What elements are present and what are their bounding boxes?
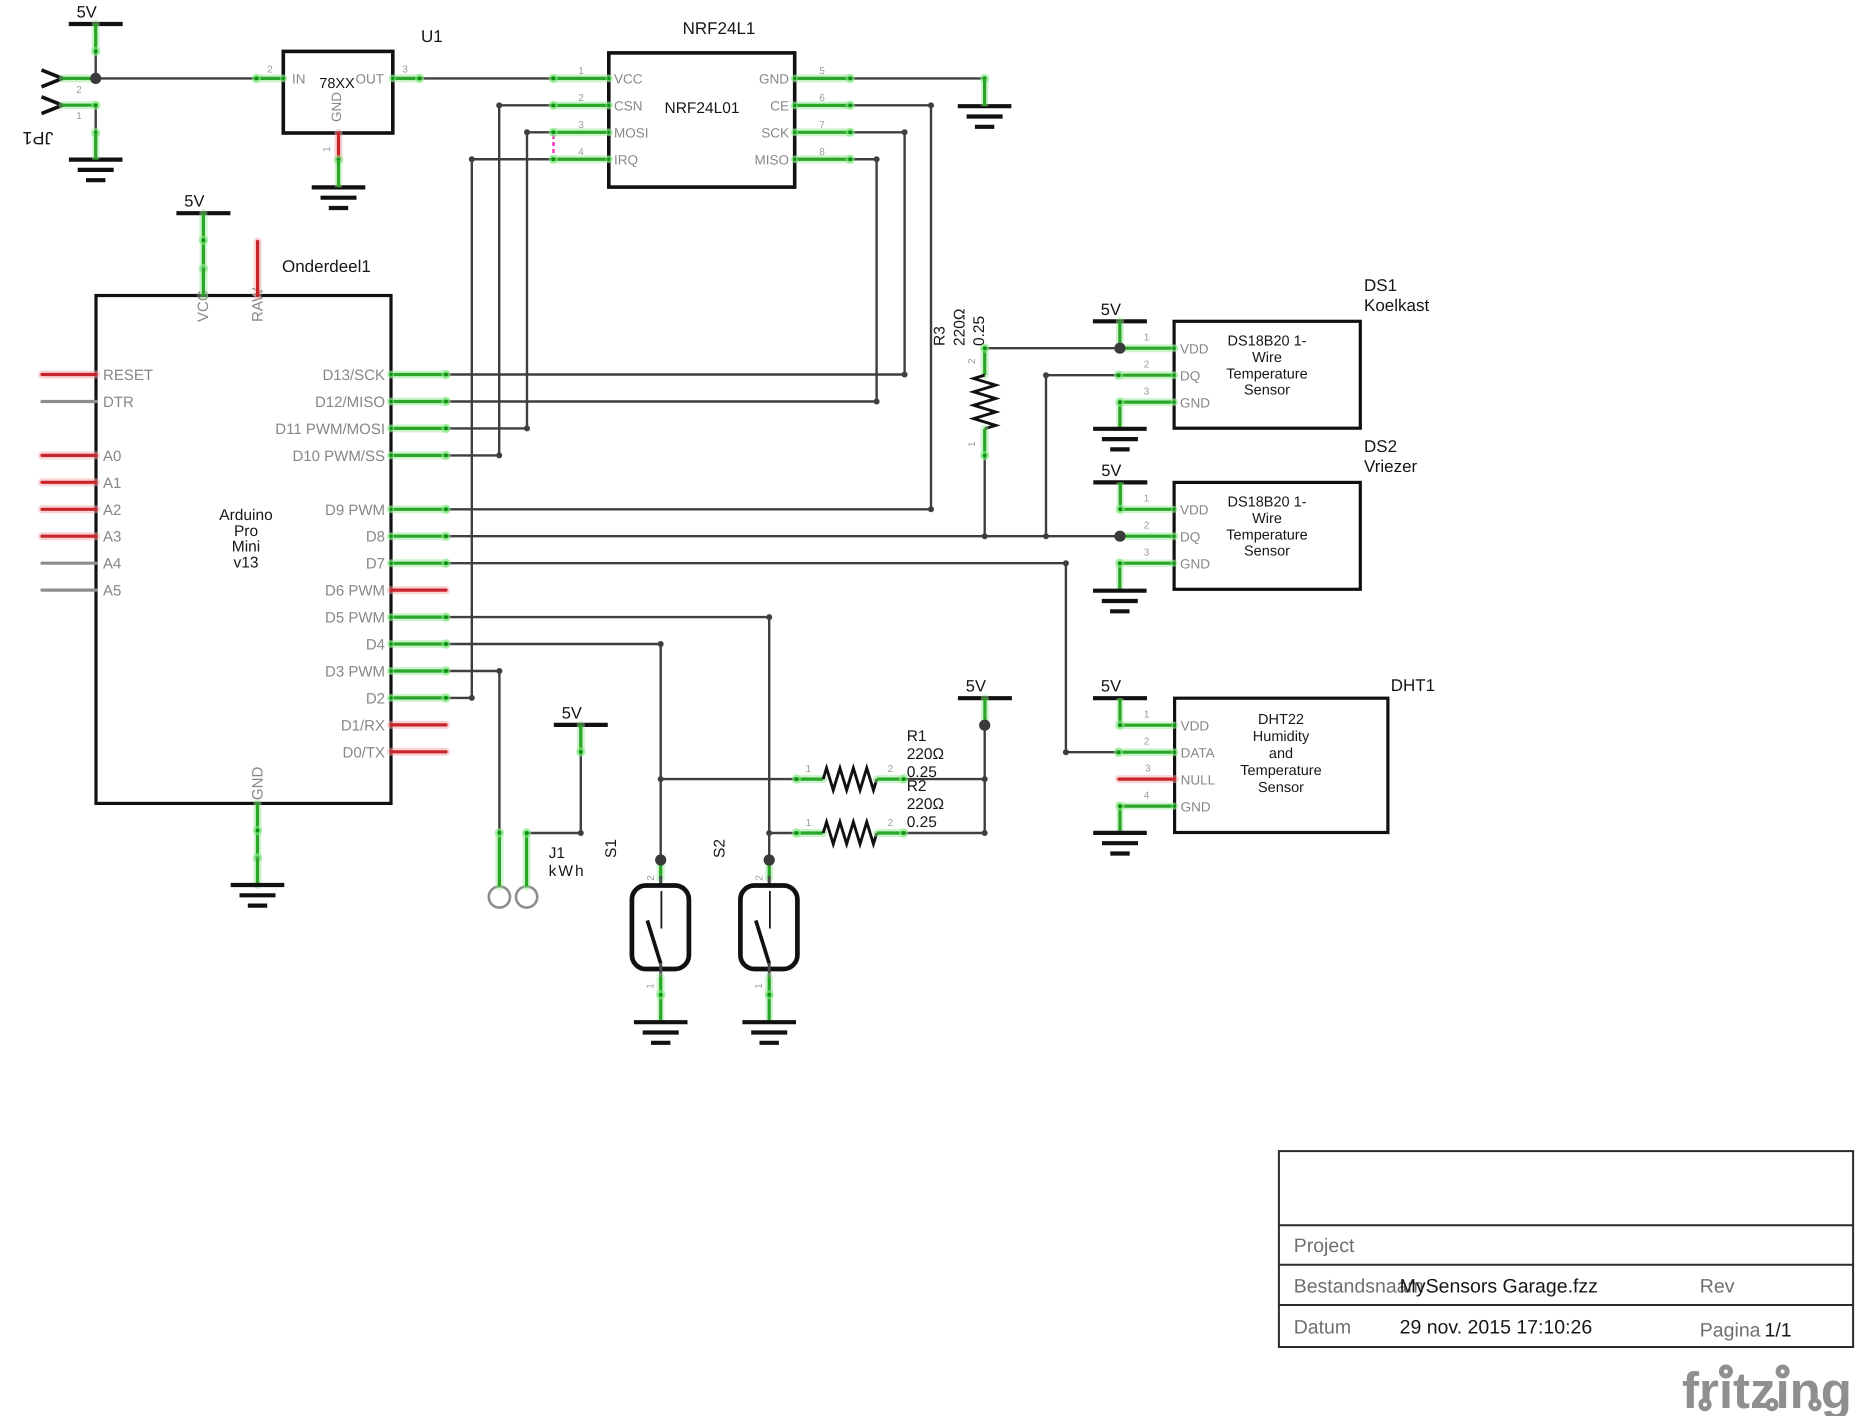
wire Arduino D5 to switch S2 — [441, 612, 772, 860]
5V pin leg — [1116, 321, 1124, 348]
svg-text:CSN: CSN — [614, 98, 643, 113]
svg-text:1: 1 — [76, 111, 82, 122]
ground symbol below S1 — [634, 1022, 688, 1043]
svg-text:D2: D2 — [366, 690, 385, 707]
ground symbol below S2 — [742, 1022, 796, 1043]
svg-text:D8: D8 — [366, 529, 385, 546]
wire S2 pin 1 to ground (green) — [765, 990, 774, 1022]
svg-text:MISO: MISO — [754, 152, 789, 167]
S1 pin 1 leg — [657, 977, 665, 995]
svg-text:1: 1 — [322, 146, 333, 152]
svg-text:DS18B20 1-: DS18B20 1- — [1228, 495, 1307, 511]
S1 pin 2 leg — [657, 860, 665, 879]
switch S2 body — [740, 876, 797, 978]
svg-text:8: 8 — [819, 147, 825, 158]
NRF pin 6 CE leg — [791, 102, 850, 109]
power 5V symbol above DS1 — [1093, 301, 1147, 322]
svg-text:U1: U1 — [421, 27, 443, 46]
R2 pin numbers — [806, 818, 894, 829]
svg-text:DHT1: DHT1 — [1391, 676, 1435, 695]
power 5V symbol above Arduino VCC — [176, 193, 230, 214]
Arduino D2 pin leg — [388, 695, 446, 702]
svg-text:1/1: 1/1 — [1765, 1320, 1792, 1342]
svg-text:JP1: JP1 — [22, 128, 53, 148]
wire 5V to DHT VDD pin 1 (green) — [1115, 698, 1178, 730]
svg-text:5V: 5V — [1101, 301, 1121, 319]
Arduino D0/TX pin stub (red) — [391, 748, 446, 756]
svg-text:D12/MISO: D12/MISO — [315, 394, 385, 411]
svg-text:Sensor: Sensor — [1258, 780, 1304, 796]
svg-text:IRQ: IRQ — [614, 152, 638, 167]
svg-text:6: 6 — [819, 93, 825, 104]
Arduino A5 pin stub (gray) — [42, 588, 96, 591]
wire S1 to R1 pin 1 — [658, 774, 801, 783]
svg-text:2: 2 — [754, 875, 765, 881]
power 5V symbol above DHT1 — [1093, 678, 1147, 699]
svg-text:5V: 5V — [77, 4, 97, 22]
resistor R1 220 ohm (horizontal) — [796, 768, 903, 790]
Arduino D8 pin leg — [388, 533, 446, 540]
svg-text:S2: S2 — [712, 839, 729, 858]
S2 pin 2 leg — [765, 860, 773, 879]
svg-text:D11 PWM/MOSI: D11 PWM/MOSI — [275, 421, 385, 438]
svg-text:1: 1 — [1144, 494, 1150, 505]
svg-text:and: and — [1269, 746, 1293, 762]
svg-text:3: 3 — [578, 120, 584, 131]
switch S1 body — [632, 876, 689, 978]
Arduino DTR pin stub (gray) — [42, 400, 96, 403]
svg-text:D3 PWM: D3 PWM — [325, 664, 385, 681]
ground symbol below U1 — [312, 187, 366, 208]
label R3 220 ohm 0.25 (rotated) — [932, 309, 989, 346]
NRF pin 5 GND leg — [791, 75, 850, 82]
svg-text:D13/SCK: D13/SCK — [322, 367, 385, 384]
wire Arduino D7 to DHT DATA — [441, 559, 1123, 757]
svg-text:3: 3 — [402, 65, 408, 76]
node 5V rail junction — [90, 73, 101, 84]
svg-text:Temperature: Temperature — [1226, 366, 1307, 382]
svg-text:MOSI: MOSI — [614, 125, 649, 140]
svg-text:2: 2 — [76, 85, 82, 96]
ground symbol right of NRF — [958, 106, 1012, 127]
svg-text:A1: A1 — [103, 475, 121, 492]
svg-text:OUT: OUT — [356, 71, 385, 86]
wire DS1 DQ riser to 1-wire bus — [1043, 371, 1123, 540]
wire JP1 pin 1 down — [91, 101, 100, 138]
wire 5V to J1 pin 2 — [522, 747, 586, 838]
NRF CSN label and number — [578, 93, 642, 114]
svg-text:Wire: Wire — [1252, 511, 1282, 527]
svg-text:2: 2 — [1144, 737, 1150, 748]
Arduino A4 pin stub (gray) — [42, 562, 96, 565]
svg-text:A3: A3 — [103, 529, 121, 546]
svg-text:2: 2 — [888, 818, 894, 829]
node S2 junction — [764, 854, 775, 865]
svg-text:Datum: Datum — [1294, 1317, 1351, 1339]
power 5V symbol top-left rail — [69, 4, 123, 25]
svg-text:5V: 5V — [1101, 678, 1121, 696]
node DS2 DQ junction — [1114, 531, 1125, 542]
wire U1 GND to ground (green) — [335, 160, 343, 188]
wire NRF IRQ to Arduino D2 — [441, 155, 558, 703]
svg-text:3: 3 — [1144, 548, 1150, 559]
ground pin leg — [254, 858, 262, 885]
svg-text:Wire: Wire — [1252, 350, 1282, 366]
svg-text:5V: 5V — [562, 704, 582, 722]
Arduino D7 pin leg — [388, 560, 446, 567]
Arduino GND pin leg — [254, 803, 262, 830]
Arduino VCC pin leg — [199, 269, 207, 296]
svg-text:D4: D4 — [366, 637, 385, 654]
JP1 pin 2 leg — [63, 74, 96, 82]
temperature sensor DS1 box — [1174, 321, 1360, 428]
DS1 VDD pin 1 leg — [1120, 345, 1178, 352]
svg-text:DQ: DQ — [1180, 369, 1200, 384]
wire Arduino D3 to J1 — [441, 666, 504, 837]
node DS1 VDD junction — [1114, 343, 1125, 354]
wire R3 pin 1 to 1-wire bus — [980, 451, 989, 539]
node 5V resistor junction — [979, 720, 990, 731]
svg-text:GND: GND — [1180, 557, 1210, 572]
svg-text:1: 1 — [646, 983, 657, 989]
ground pin leg (green) — [981, 78, 989, 106]
svg-text:0.25: 0.25 — [907, 814, 937, 831]
svg-text:DS1: DS1 — [1364, 276, 1397, 295]
DHT NULL pin 3 stub (red) — [1119, 775, 1175, 783]
NRF VCC label and number — [578, 66, 643, 87]
power 5V symbol above J1 — [554, 704, 608, 725]
svg-text:2: 2 — [1144, 521, 1150, 532]
ground symbol below Arduino — [231, 885, 285, 906]
NRF pin 3 MOSI leg — [553, 129, 612, 136]
svg-text:D1/RX: D1/RX — [341, 717, 385, 734]
svg-text:1: 1 — [806, 764, 812, 775]
svg-text:VDD: VDD — [1181, 719, 1210, 734]
svg-text:A5: A5 — [103, 583, 121, 600]
wire DS2 GND pin 3 to ground (green) — [1115, 559, 1177, 591]
5V pin leg — [981, 698, 989, 725]
svg-text:NRF24L1: NRF24L1 — [683, 19, 756, 38]
resistor R2 220 ohm (horizontal) — [796, 822, 903, 844]
radio module NRF24L1 box — [609, 53, 795, 187]
svg-text:1: 1 — [1144, 710, 1150, 721]
label R1 220 ohm 0.25 — [907, 728, 944, 781]
NRF pin 2 CSN leg — [553, 102, 612, 109]
ratsnest MOSI-IRQ (dashed pink) — [552, 135, 554, 156]
R1 pin numbers — [806, 764, 894, 775]
wire R2 pin 2 to 5V rail — [899, 828, 985, 837]
NRF pin 7 SCK leg — [791, 129, 850, 136]
wire NRF GND to ground lead — [846, 74, 990, 83]
svg-text:D10 PWM/SS: D10 PWM/SS — [292, 448, 385, 465]
Arduino A1 pin stub (red) — [42, 478, 96, 486]
wire U1 OUT to NRF VCC — [415, 74, 558, 83]
ground symbol below DHT1 — [1093, 833, 1147, 854]
title block frame — [1279, 1151, 1853, 1347]
svg-text:78XX: 78XX — [319, 76, 355, 92]
Arduino D12/MISO pin leg — [388, 398, 446, 405]
svg-text:A2: A2 — [103, 502, 121, 519]
Arduino D11 PWM/MOSI pin leg — [388, 425, 446, 432]
svg-text:GND: GND — [759, 71, 789, 86]
svg-text:5V: 5V — [966, 678, 986, 696]
svg-text:2: 2 — [888, 764, 894, 775]
power 5V symbol above DS2 — [1093, 462, 1147, 483]
Arduino D10 PWM/SS pin leg — [388, 452, 446, 459]
NRF SCK label and number — [761, 120, 825, 141]
svg-text:Humidity: Humidity — [1253, 729, 1310, 745]
svg-text:J1: J1 — [549, 845, 565, 862]
wire Arduino GND to ground (green) — [253, 826, 262, 863]
JP1 pin 1 leg — [63, 101, 96, 109]
ground symbol below DS2 — [1093, 591, 1147, 612]
label R2 220 ohm 0.25 — [907, 778, 944, 831]
U1 OUT pin 3 leg — [389, 75, 419, 82]
svg-text:2: 2 — [267, 65, 273, 76]
NRF IRQ label and number — [578, 147, 638, 168]
wire 5V to DS2 VDD pin 1 (green) — [1116, 482, 1178, 514]
DS1 pin numbers — [1144, 333, 1150, 398]
DHT DATA pin 2 leg — [1119, 749, 1179, 756]
svg-text:R2: R2 — [907, 778, 927, 795]
NRF pin 1 VCC leg — [553, 75, 612, 82]
wire junction to U1 IN — [96, 74, 261, 83]
label DS2 Vriezer — [1364, 437, 1418, 476]
NRF GND label and number — [759, 66, 825, 87]
Arduino D3 PWM pin leg — [388, 668, 446, 675]
wire 5V rail down to junction — [91, 47, 100, 79]
wire 5V junction down to R1/R2 — [982, 725, 988, 836]
svg-text:3: 3 — [1145, 763, 1151, 774]
fritzing logo — [1682, 1362, 1852, 1419]
NRF pin 4 IRQ leg — [553, 156, 612, 163]
svg-text:GND: GND — [1181, 799, 1211, 814]
svg-text:GND: GND — [329, 92, 344, 122]
svg-text:v13: v13 — [234, 554, 259, 571]
svg-text:Sensor: Sensor — [1244, 383, 1290, 399]
Arduino RAW pin stub (red) — [254, 242, 262, 296]
svg-text:29 nov. 2015 17:10:26: 29 nov. 2015 17:10:26 — [1400, 1317, 1593, 1339]
svg-text:DS2: DS2 — [1364, 437, 1397, 456]
svg-text:Project: Project — [1294, 1235, 1355, 1257]
svg-text:A0: A0 — [103, 448, 121, 465]
svg-text:D5 PWM: D5 PWM — [325, 610, 385, 627]
svg-text:DHT22: DHT22 — [1258, 712, 1304, 728]
svg-text:2: 2 — [1144, 360, 1150, 371]
Arduino RESET pin stub (red) — [42, 371, 96, 379]
Arduino D1/RX pin stub (red) — [391, 721, 446, 729]
svg-text:D9 PWM: D9 PWM — [325, 502, 385, 519]
DHT1 pin numbers — [1144, 710, 1151, 802]
U1 IN pin 2 leg — [256, 75, 286, 82]
Arduino A3 pin stub (red) — [42, 532, 96, 540]
ground symbol below JP1 — [69, 160, 123, 181]
svg-text:Sensor: Sensor — [1244, 544, 1290, 560]
DS1 DQ pin 2 leg — [1119, 372, 1178, 379]
svg-text:3: 3 — [1144, 386, 1150, 397]
U1 GND pin 1 leg (red) — [335, 133, 343, 160]
wire S1 pin 1 to ground (green) — [656, 990, 665, 1022]
svg-text:GND: GND — [1180, 395, 1210, 410]
svg-text:IN: IN — [292, 71, 306, 86]
Arduino D5 PWM pin leg — [388, 614, 446, 621]
svg-text:Vriezer: Vriezer — [1364, 457, 1418, 476]
5V pin leg — [199, 213, 207, 240]
wire NRF SCK to Arduino D13 — [441, 128, 907, 380]
svg-text:1: 1 — [967, 441, 978, 447]
svg-text:Onderdeel1: Onderdeel1 — [282, 257, 371, 276]
J1 pin 1 leg — [495, 833, 503, 887]
wire R1 pin 2 to 5V rail — [899, 774, 985, 783]
resistor R3 220 ohm (vertical) — [974, 348, 996, 455]
svg-text:4: 4 — [1144, 790, 1150, 801]
svg-text:R1: R1 — [907, 728, 927, 745]
svg-text:1: 1 — [754, 983, 765, 989]
humidity sensor DHT1 box — [1175, 698, 1388, 832]
svg-text:DTR: DTR — [103, 394, 134, 411]
Arduino D13/SCK pin leg — [388, 371, 446, 378]
svg-text:220Ω: 220Ω — [952, 309, 969, 346]
ground symbol below DS1 — [1093, 429, 1147, 450]
wire NRF CSN to Arduino D10 — [441, 101, 558, 460]
label J1 kWh — [549, 845, 586, 880]
wire DS1 GND to ground (green) — [1115, 397, 1124, 428]
svg-text:Arduino: Arduino — [219, 507, 272, 524]
svg-text:VCC: VCC — [614, 71, 643, 86]
svg-text:4: 4 — [578, 147, 584, 158]
svg-text:MySensors Garage.fzz: MySensors Garage.fzz — [1400, 1276, 1598, 1298]
svg-text:Pro: Pro — [234, 523, 258, 540]
svg-text:1: 1 — [806, 818, 812, 829]
svg-text:R3: R3 — [932, 326, 949, 346]
DS2 DQ pin 2 leg — [1119, 533, 1178, 540]
NRF MOSI label and number — [578, 120, 648, 141]
svg-text:Temperature: Temperature — [1240, 763, 1321, 779]
svg-text:5: 5 — [819, 66, 825, 77]
Arduino D9 PWM pin leg — [388, 506, 446, 513]
wire stubjoin — [334, 155, 343, 164]
Arduino D4 pin leg — [388, 641, 446, 648]
svg-text:7: 7 — [819, 120, 825, 131]
NRF MISO label and number — [754, 147, 825, 168]
svg-text:Mini: Mini — [232, 539, 260, 556]
svg-text:Pagina: Pagina — [1700, 1320, 1761, 1342]
svg-text:D7: D7 — [366, 556, 385, 573]
wire 5V to Arduino VCC (green) — [199, 236, 208, 274]
svg-text:Koelkast: Koelkast — [1364, 296, 1429, 315]
svg-text:220Ω: 220Ω — [907, 796, 944, 813]
NRF pin 8 MISO leg — [791, 156, 850, 163]
svg-text:SCK: SCK — [761, 125, 789, 140]
svg-text:2: 2 — [646, 875, 657, 881]
Arduino A2 pin stub (red) — [42, 505, 96, 513]
svg-text:VDD: VDD — [1180, 503, 1209, 518]
svg-text:VDD: VDD — [1180, 342, 1209, 357]
wire JP1 to ground (green) — [92, 133, 100, 160]
svg-text:D0/TX: D0/TX — [342, 744, 385, 761]
svg-text:DATA: DATA — [1181, 746, 1215, 761]
svg-text:NRF24L01: NRF24L01 — [665, 100, 740, 117]
connector J1 pin 1 circle — [489, 886, 510, 907]
wire DHT GND pin 4 to ground (green) — [1115, 801, 1178, 833]
svg-text:5V: 5V — [184, 193, 204, 211]
svg-text:Rev: Rev — [1700, 1276, 1735, 1298]
svg-text:GND: GND — [250, 767, 267, 801]
connector JP1 pin 2 chevron — [42, 70, 63, 87]
node S1 junction — [655, 854, 666, 865]
power 5V symbol above resistors — [958, 678, 1012, 699]
svg-text:D6 PWM: D6 PWM — [325, 583, 385, 600]
svg-text:2: 2 — [578, 93, 584, 104]
5V pin leg — [577, 725, 585, 752]
label DS1 Koelkast — [1364, 276, 1429, 315]
connector J1 pin 2 circle — [516, 886, 537, 907]
connector JP1 pin 1 chevron — [42, 97, 63, 114]
svg-text:220Ω: 220Ω — [907, 746, 944, 763]
svg-text:1: 1 — [1144, 333, 1150, 344]
svg-text:DQ: DQ — [1180, 530, 1200, 545]
svg-text:0.25: 0.25 — [971, 316, 988, 346]
svg-text:2: 2 — [967, 358, 978, 364]
svg-text:5V: 5V — [1101, 462, 1121, 480]
Arduino A0 pin stub (red) — [42, 451, 96, 459]
wire S2 to R2 pin 1 — [766, 828, 801, 837]
wire R3 pin 2 to DS1 VDD rail — [980, 344, 1120, 353]
5V pin leg — [92, 24, 100, 51]
DS2 pin numbers — [1144, 494, 1150, 559]
DS1 GND pin 3 leg — [1120, 399, 1178, 406]
svg-text:DS18B20 1-: DS18B20 1- — [1228, 334, 1307, 350]
voltage regulator U1 box 78XX — [283, 51, 393, 133]
wire Arduino D4 to switch S1 — [441, 639, 663, 860]
J1 pin 2 leg — [523, 833, 531, 886]
svg-text:RESET: RESET — [103, 367, 153, 384]
svg-text:NULL: NULL — [1181, 772, 1216, 787]
microcontroller Onderdeel1 Arduino Pro Mini box — [96, 287, 391, 804]
wire NRF CE to Arduino D9 — [441, 101, 934, 514]
wire NRF MOSI to Arduino D11 — [441, 128, 558, 433]
svg-text:S1: S1 — [603, 839, 620, 858]
svg-text:CE: CE — [770, 98, 789, 113]
wire Arduino D8 1-wire bus — [441, 532, 1118, 541]
Arduino D6 PWM pin stub (red) — [391, 586, 446, 594]
S2 pin 1 leg — [765, 977, 773, 995]
svg-text:kWh: kWh — [549, 863, 586, 880]
svg-text:A4: A4 — [103, 556, 121, 573]
wire NRF MISO to Arduino D12 — [441, 155, 879, 407]
temperature sensor DS2 box — [1174, 482, 1360, 589]
NRF CE label and number — [770, 93, 825, 114]
svg-text:Temperature: Temperature — [1226, 527, 1307, 543]
svg-text:1: 1 — [578, 66, 584, 77]
R3 pin numbers (rotated) — [967, 358, 978, 447]
